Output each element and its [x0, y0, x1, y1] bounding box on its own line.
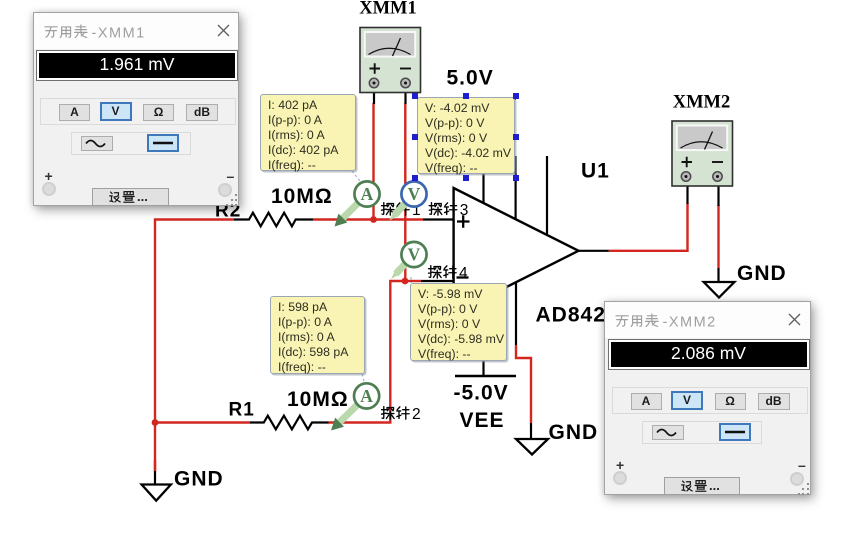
multimeter icon XMM1 — [360, 28, 421, 93]
svg-text:U1: U1 — [581, 160, 610, 183]
svg-text:VEE: VEE — [460, 409, 505, 432]
probe tooltip probe4 voltage — [410, 283, 507, 361]
voltage probe tanzhen4 (V) — [391, 242, 427, 279]
leader line tooltip1 to probe1 — [352, 171, 363, 185]
op-amp pin 5 to ground (black) — [515, 282, 517, 346]
svg-text:R1: R1 — [229, 400, 255, 421]
multimeter dialog window XMM2 — [604, 301, 811, 495]
svg-text:...: ... — [137, 189, 148, 204]
wire net input-left: R2 row to GND1 vertical — [155, 220, 234, 472]
probe label tanzhen3 — [429, 202, 468, 219]
voltage probe tanzhen3 (V) — [390, 181, 427, 220]
wire XMM2 terminal stubs (black) — [688, 177, 719, 206]
node junction B (XMM1- / R1 / op-amp-) — [402, 278, 409, 285]
wire R2 right to op-amp plus-input (red part) — [313, 218, 423, 220]
op-amp offset pin 8 — [546, 156, 548, 235]
svg-text:XMM1: XMM1 — [359, 0, 417, 19]
current probe tanzhen2 (A) — [331, 383, 379, 430]
op-amp VS- pin 4 — [482, 299, 484, 377]
op-amp output black lead — [579, 250, 609, 252]
svg-text:V: V — [408, 184, 421, 204]
ground GND1 bottom-left — [142, 471, 171, 501]
resistor R2 — [234, 213, 313, 227]
multimeter icon XMM2 — [672, 121, 733, 186]
svg-text:-XMM2: -XMM2 — [663, 314, 717, 330]
probe tooltip probe2 current — [270, 296, 365, 374]
node junction A (XMM1+ / R2 / op-amp+) — [370, 216, 377, 223]
svg-text:3: 3 — [460, 202, 469, 219]
leader line tooltip4 to probe4 — [410, 277, 412, 283]
svg-text:A: A — [360, 386, 373, 406]
op-amp plus input marker — [457, 215, 470, 228]
svg-text:...: ... — [709, 478, 720, 493]
svg-text:XMM2: XMM2 — [673, 93, 731, 113]
svg-text:GND: GND — [174, 468, 224, 491]
node junction C (input / R1 / GND1) — [152, 419, 159, 426]
probe label tanzhen1 — [382, 202, 421, 219]
wire GND1 red drop — [154, 460, 156, 471]
selection handles around tooltip3 — [412, 93, 418, 99]
ground GND3 under XMM2 — [704, 268, 735, 298]
svg-text:-XMM1: -XMM1 — [91, 25, 145, 41]
VEE -5.0V supply bar — [455, 375, 516, 377]
wire XMM1 terminal stubs (black) — [374, 83, 406, 104]
svg-text:10MΩ: 10MΩ — [287, 388, 349, 411]
wire R1 left red — [155, 421, 250, 423]
svg-text:2: 2 — [412, 406, 421, 423]
probe tooltip probe1 current — [260, 94, 356, 171]
VCC 5.0V supply bar (mostly hidden by tooltip) — [455, 97, 516, 99]
wire op-amp plus-input black lead — [423, 218, 454, 220]
svg-text:5.0V: 5.0V — [447, 67, 494, 90]
wire op-amp gnd pin red segment — [516, 345, 531, 423]
probe label tanzhen4 — [429, 265, 468, 282]
op-amp minus input marker — [457, 276, 469, 278]
current probe tanzhen1 (A) — [335, 181, 380, 226]
svg-text:V: V — [408, 245, 421, 265]
svg-text:10MΩ: 10MΩ — [271, 185, 333, 208]
svg-text:GND: GND — [737, 262, 787, 285]
multimeter dialog window XMM1 — [33, 12, 240, 206]
probe tooltip probe3 voltage (selected) — [417, 97, 515, 174]
wire XMM2 minus to GND3 (red) — [717, 205, 719, 268]
svg-text:-5.0V: -5.0V — [454, 382, 509, 405]
leader line tooltip2 to probe2 — [362, 374, 366, 388]
svg-text:GND: GND — [549, 421, 599, 444]
wire op-amp minus-input black lead — [421, 280, 454, 282]
op-amp offset pin 1 — [514, 156, 516, 219]
op-amp U1 triangle — [454, 188, 579, 314]
wire junction B left and down to R1 right — [390, 281, 405, 423]
wire op-amp output to XMM2 plus (red) — [609, 203, 688, 251]
wire R1 right red — [329, 421, 392, 423]
resistor R1 — [250, 416, 329, 430]
svg-text:A: A — [361, 184, 374, 204]
ground GND2 middle — [516, 423, 548, 455]
wire XMM1 plus terminal down to junction A — [372, 103, 374, 220]
wire XMM1 minus terminal down to junction B — [404, 103, 406, 281]
wire junction B to op-amp minus-input red part — [405, 280, 421, 282]
probe label tanzhen2 — [382, 406, 421, 423]
svg-text:4: 4 — [459, 265, 468, 282]
op-amp VS+ pin 7 — [482, 99, 484, 204]
